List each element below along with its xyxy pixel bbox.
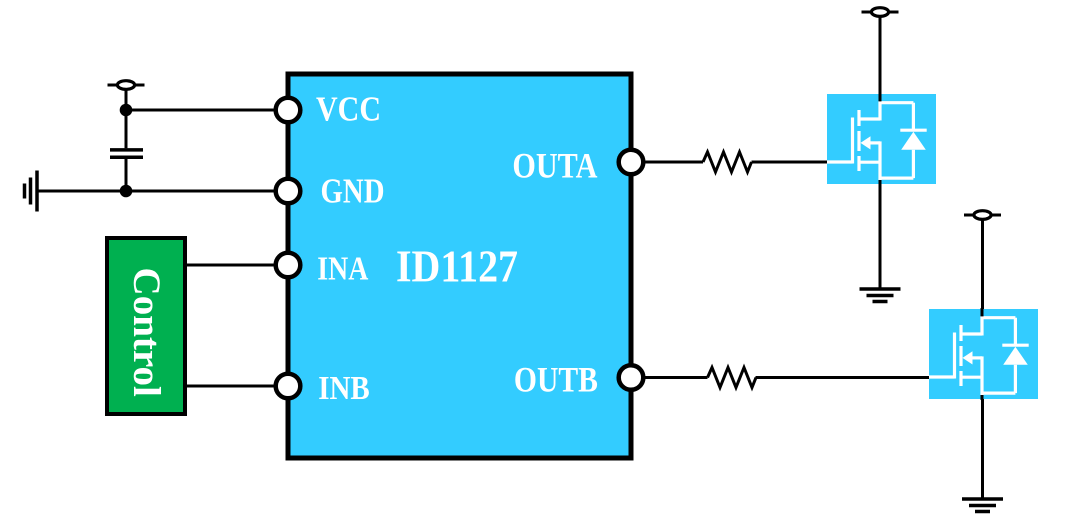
svg-text:INA: INA — [317, 251, 368, 288]
svg-text:VCC: VCC — [316, 90, 381, 129]
svg-text:GND: GND — [321, 171, 385, 210]
svg-text:OUTA: OUTA — [512, 145, 597, 185]
svg-text:ID1127: ID1127 — [396, 241, 518, 291]
svg-text:OUTB: OUTB — [514, 360, 598, 400]
svg-text:Control: Control — [125, 268, 168, 397]
svg-text:INB: INB — [318, 370, 370, 407]
